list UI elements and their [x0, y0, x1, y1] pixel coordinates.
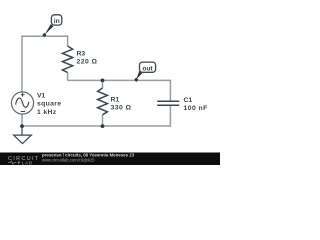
junction dot bottom of R1: [101, 124, 105, 128]
wire R3 bottom lead: [67, 73, 69, 81]
svg-text:220 Ω: 220 Ω: [77, 58, 98, 65]
svg-text:out: out: [142, 65, 153, 72]
V1 minus sign: [21, 111, 26, 113]
svg-text:330 Ω: 330 Ω: [111, 104, 132, 111]
svg-text:square: square: [37, 101, 61, 108]
wire bottom horizontal: [21, 125, 171, 127]
voltage source V1: [11, 92, 33, 114]
wire R1 bottom lead: [102, 115, 104, 126]
svg-text:C1: C1: [184, 97, 193, 104]
node flag in : tail: [45, 24, 54, 35]
node flag out : tail: [136, 71, 142, 80]
resistor R3: [62, 46, 72, 73]
label R1 value: [111, 97, 132, 112]
wire left vertical: [21, 35, 23, 92]
wire R1 top lead: [102, 80, 104, 88]
footer bar: [0, 153, 220, 166]
ground: [14, 126, 32, 144]
label R3 value: [77, 50, 98, 65]
wire R3 top lead: [67, 35, 69, 46]
node flag in : tip diamond: [42, 33, 46, 38]
node flag out : bubble: [140, 62, 156, 72]
svg-text:V1: V1: [37, 93, 46, 100]
wire middle horizontal (node out): [68, 79, 172, 81]
junction dot bottom of V1: [20, 124, 24, 128]
wire C1 top lead: [169, 80, 171, 101]
svg-text:www.circuitlab.com/c6qbk25: www.circuitlab.com/c6qbk25: [42, 158, 95, 163]
capacitor C1: [157, 101, 179, 105]
V1 plus sign: [21, 93, 25, 97]
footer CircuitLab logo line 2 waveform: [8, 161, 16, 164]
svg-text:1 kHz: 1 kHz: [37, 109, 57, 116]
svg-text:100 nF: 100 nF: [184, 105, 208, 112]
wire V1 bottom lead: [21, 114, 23, 126]
svg-text:R3: R3: [77, 50, 86, 57]
node flag out : tip diamond: [134, 77, 138, 82]
label V1 value: [37, 93, 61, 116]
svg-text:R1: R1: [111, 97, 120, 104]
node flag in : bubble: [51, 15, 61, 25]
footer CircuitLab logo lightning bolt: [18, 160, 21, 165]
label C1 value: [184, 97, 208, 112]
svg-text:LAB: LAB: [22, 160, 33, 165]
wire C1 bottom lead: [169, 105, 171, 126]
wire top (node in): [21, 35, 67, 37]
V1 sine waveform: [16, 98, 29, 107]
svg-text:in: in: [54, 18, 60, 25]
resistor R1: [98, 88, 108, 115]
junction dot node out top of R1: [101, 79, 105, 83]
